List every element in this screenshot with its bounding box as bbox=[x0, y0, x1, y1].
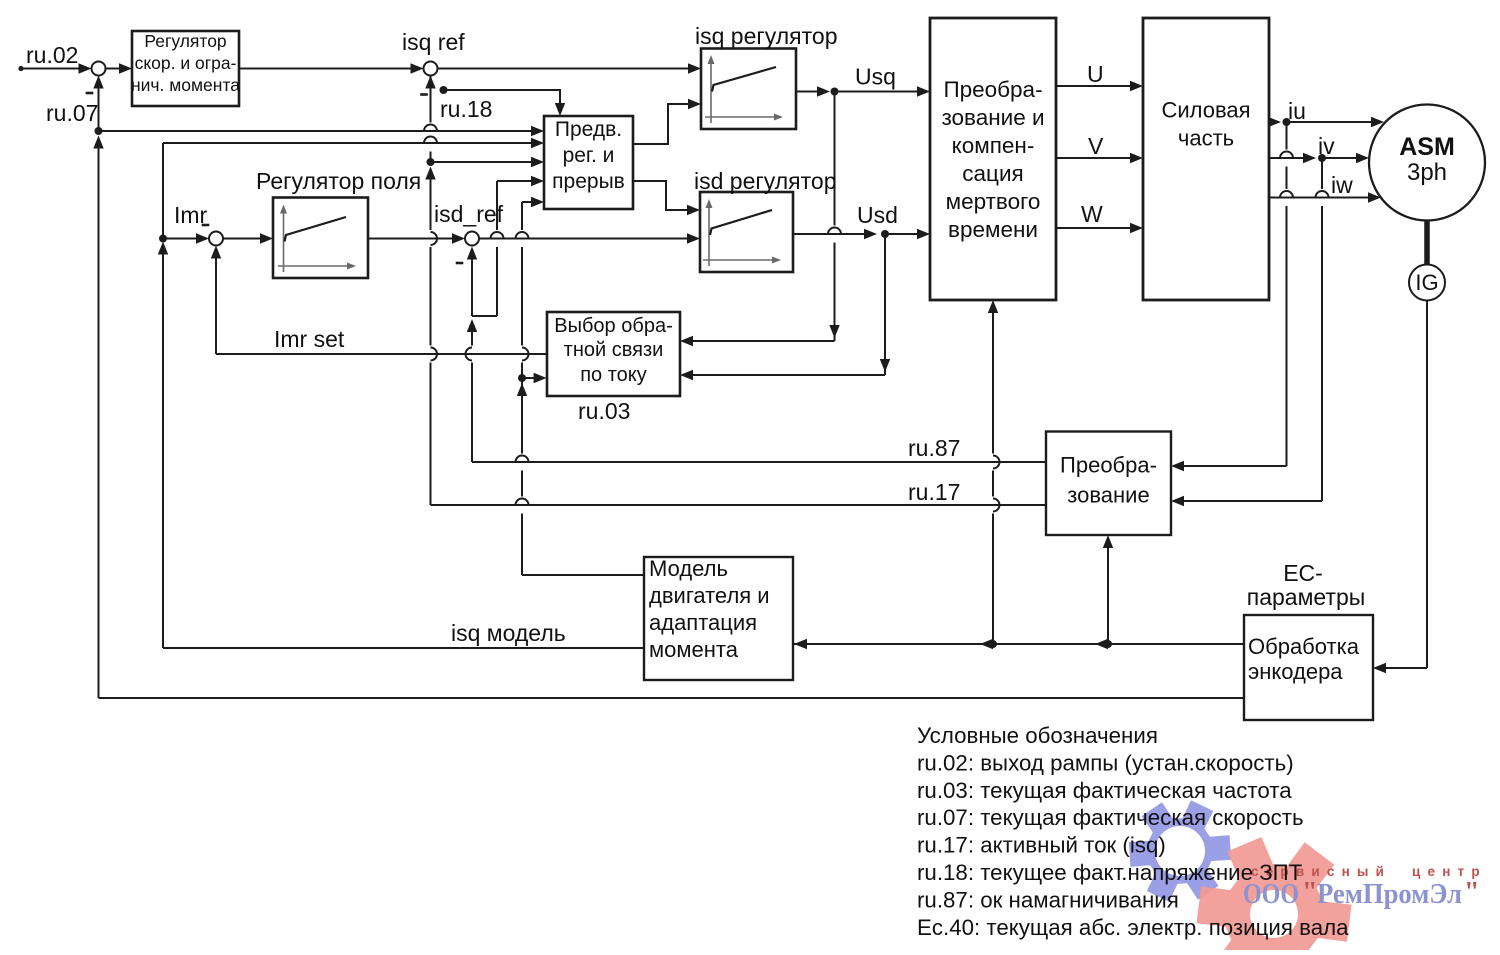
svg-text:Модель: Модель bbox=[649, 556, 728, 581]
svg-text:W: W bbox=[1081, 201, 1103, 227]
svg-text:рег. и: рег. и bbox=[563, 144, 615, 167]
svg-text:Преобра-: Преобра- bbox=[943, 77, 1042, 102]
svg-text:Предв.: Предв. bbox=[555, 118, 622, 141]
svg-text:Usd: Usd bbox=[857, 202, 898, 228]
svg-text:по току: по току bbox=[580, 364, 647, 386]
svg-text:ru.17: ru.17 bbox=[908, 479, 960, 505]
svg-text:iw: iw bbox=[1331, 172, 1353, 198]
svg-text:Ec.40: текущая абс. электр. по: Ec.40: текущая абс. электр. позиция вала bbox=[917, 915, 1349, 940]
svg-text:ru.18: текущее факт.напряжение: ru.18: текущее факт.напряжение ЗПТ bbox=[917, 860, 1303, 885]
svg-text:IG: IG bbox=[1415, 270, 1438, 295]
svg-text:Условные обозначения: Условные обозначения bbox=[917, 723, 1158, 748]
svg-text:Преобра-: Преобра- bbox=[1060, 453, 1157, 478]
svg-text:EC-: EC- bbox=[1283, 560, 1323, 586]
svg-text:3ph: 3ph bbox=[1407, 159, 1447, 186]
svg-text:скор. и огра-: скор. и огра- bbox=[135, 53, 237, 73]
svg-text:ru.02: выход рампы (устан.скор: ru.02: выход рампы (устан.скорость) bbox=[917, 750, 1294, 775]
svg-text:нич. момента: нич. момента bbox=[131, 75, 240, 95]
svg-text:": " bbox=[1464, 877, 1480, 908]
svg-text:Силовая: Силовая bbox=[1161, 98, 1250, 123]
svg-text:ru.87: ru.87 bbox=[908, 435, 960, 461]
svg-text:параметры: параметры bbox=[1247, 584, 1366, 610]
svg-text:isq модель: isq модель bbox=[451, 620, 566, 646]
svg-text:iu: iu bbox=[1288, 98, 1306, 124]
svg-text:сация: сация bbox=[962, 161, 1023, 186]
svg-text:Imr set: Imr set bbox=[274, 326, 345, 352]
svg-text:компен-: компен- bbox=[952, 133, 1035, 158]
svg-text:": " bbox=[1302, 877, 1318, 908]
svg-text:Регулятор: Регулятор bbox=[144, 31, 226, 51]
svg-text:РемПромЭл: РемПромЭл bbox=[1317, 879, 1462, 910]
svg-text:времени: времени bbox=[948, 217, 1038, 242]
svg-text:ru.18: ru.18 bbox=[440, 96, 492, 122]
svg-text:энкодера: энкодера bbox=[1248, 659, 1343, 684]
svg-text:прерыв: прерыв bbox=[552, 170, 625, 193]
svg-text:адаптация: адаптация bbox=[649, 610, 757, 635]
svg-text:ru.03: текущая фактическая час: ru.03: текущая фактическая частота bbox=[917, 778, 1292, 803]
svg-text:ru.17: активный ток (isq): ru.17: активный ток (isq) bbox=[917, 833, 1166, 858]
svg-text:U: U bbox=[1087, 61, 1104, 87]
svg-text:зование: зование bbox=[1067, 483, 1149, 508]
svg-text:Регулятор поля: Регулятор поля bbox=[256, 168, 421, 194]
svg-text:isd регулятор: isd регулятор bbox=[694, 168, 837, 194]
svg-text:V: V bbox=[1088, 133, 1104, 159]
svg-text:зование и: зование и bbox=[941, 105, 1044, 130]
svg-text:Выбор обра-: Выбор обра- bbox=[554, 315, 672, 337]
svg-text:isd_ref: isd_ref bbox=[434, 201, 504, 227]
svg-text:isq ref: isq ref bbox=[402, 29, 465, 55]
svg-text:тной связи: тной связи bbox=[564, 339, 664, 361]
svg-text:двигателя и: двигателя и bbox=[649, 583, 770, 608]
svg-text:ru.03: ru.03 bbox=[578, 398, 630, 424]
svg-text:мертвого: мертвого bbox=[946, 189, 1041, 214]
svg-text:ASM: ASM bbox=[1399, 133, 1455, 161]
svg-text:ru.02: ru.02 bbox=[26, 42, 78, 68]
svg-text:часть: часть bbox=[1178, 126, 1234, 151]
svg-text:Обработка: Обработка bbox=[1248, 634, 1360, 659]
svg-text:ru.07: ru.07 bbox=[46, 100, 98, 126]
svg-text:iv: iv bbox=[1318, 133, 1335, 159]
svg-text:isq регулятор: isq регулятор bbox=[695, 23, 838, 49]
svg-text:Imr: Imr bbox=[174, 202, 208, 228]
svg-text:ru.07: текущая фактическая ско: ru.07: текущая фактическая скорость bbox=[917, 805, 1304, 830]
svg-text:ru.87: ок намагничивания: ru.87: ок намагничивания bbox=[917, 887, 1179, 912]
svg-text:Usq: Usq bbox=[855, 64, 896, 90]
svg-text:момента: момента bbox=[649, 637, 739, 662]
